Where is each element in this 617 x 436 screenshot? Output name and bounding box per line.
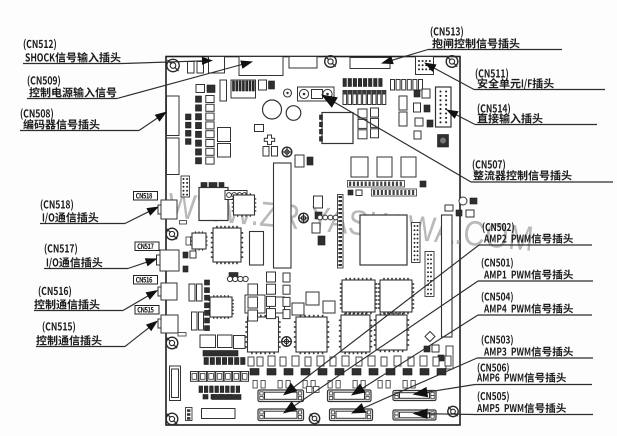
connector CN516 (control comm) [158,283,177,300]
square column c [248,284,258,321]
dark strip 2 [212,395,241,400]
mounting screw top-right [446,56,458,68]
stacked rect column b [371,108,379,138]
CN509 leader line [117,61,253,99]
capacitor C1 [188,62,195,74]
connector CN506 (AMP6 PWM) [393,391,436,401]
vertical pin strip [338,195,344,269]
IC U7 with bumps [320,113,354,144]
connector CN501 (AMP1 PWM) [258,409,304,421]
board label CN517 [135,242,159,251]
CN508 leader line [139,112,167,131]
CN505 label [475,391,593,414]
connector CN503 (AMP3 PWM) [330,409,373,421]
IC N1 [200,335,216,348]
IC U14 QFP [339,313,372,354]
resistor array 2 [399,112,407,126]
screw center-bottom [282,337,292,347]
connector CN504 (AMP4 PWM) [328,390,372,402]
small part [255,125,264,132]
connector CN513 (brake control) [350,58,390,69]
connector CN514 (direct input) [436,87,452,127]
wide flat rect bottom-left [202,409,236,419]
CN505 leader line [413,409,476,420]
DIP switch row [191,372,249,382]
small circle part [284,89,292,97]
screw center [299,213,309,223]
small part right of screw [186,237,191,245]
IC U15 QFP [374,313,409,352]
board label CN518 [134,192,158,201]
capacitor bank left column [196,96,202,164]
IC top flat [289,57,317,69]
IC M1 [245,295,265,313]
capacitor C2 [197,62,204,74]
CN512 leader line [123,57,213,65]
trimmer dark [438,135,449,148]
socket strip with circles [225,191,247,200]
IC M4 [292,303,304,315]
mounting screw top-left [167,59,179,71]
CN514 leader line [446,110,475,125]
connector CN508 upper (encoder) [167,96,180,136]
CN512 label [23,39,123,64]
misc parts mid [295,155,313,167]
small part dark [269,81,275,89]
CN503 label [477,335,593,358]
screw center-top [282,147,292,157]
capacitor bank right column [206,96,214,165]
pin header dual-row top-left [181,176,190,197]
IC U13 QFP [294,315,329,354]
CN507 leader line [321,95,471,183]
dark caps column [205,280,210,331]
board label CN515 [135,306,159,315]
CN517 leader line [128,258,158,268]
stacked rect column a [358,109,367,139]
CN506 leader line [413,385,476,398]
electrolytic capacitor big [263,100,282,119]
small parts column [312,196,325,245]
dark caps row [201,183,224,188]
CN515 leader line [125,321,158,347]
connector bottom-left vertical [170,366,181,401]
IC U6 tall [250,232,264,266]
CN513 leader line [381,50,428,65]
CN501 leader line [283,281,478,414]
dot strip b [425,252,434,297]
plus-shaped part [264,135,274,145]
CN513 label [428,26,562,49]
CN509 label [27,75,117,98]
bottom tiny verticals row [253,381,415,389]
IC U12 QFP [245,315,280,354]
IC M6 QFP small [208,295,234,319]
3-pin part [186,408,193,421]
mounting screw top-middle [325,56,337,68]
mounting screw bottom-right [448,406,458,416]
mounting screw left-1 [166,141,178,153]
hatched strip 2 [372,189,417,196]
resistor array 1 [399,96,407,110]
small part [259,80,267,90]
caps pair above columns [196,85,215,93]
IC U10 QFP [340,278,377,314]
square column a [267,272,276,319]
CN503 leader line [351,358,477,414]
CN518 label [40,199,125,223]
cap row upper [343,79,382,87]
misc small y185 [348,181,426,196]
IC square a [351,157,368,177]
tiny bar below CN518 [180,221,187,225]
square column b [283,273,290,319]
connector CN505 (AMP5 PWM) [393,410,436,420]
small squares right of DIP [307,387,320,393]
barcode label strip [203,351,238,357]
CN504 label [478,292,592,315]
CN502 label [479,222,592,245]
IC N3 [234,336,246,349]
long vertical rect right edge [442,215,453,337]
big IC U8 [199,188,228,221]
IC M3 [306,292,319,305]
circle pins row [318,215,338,220]
big square IC center-right [360,215,407,265]
bottom caps row 1 [204,358,245,365]
pin header comb [231,80,256,98]
IC U2 [218,128,231,142]
rect left b pair [192,312,198,330]
CN518 leader line [125,207,159,224]
bottom caps row mid [248,356,451,366]
caps pair [263,147,278,157]
dot strip a [412,223,421,263]
small parts above right [445,197,477,217]
diamond part [425,332,435,342]
connector CN517 (I/O comm) [157,250,180,271]
IC M2 [270,297,285,313]
CN506 label [475,363,592,385]
CN516 leader line [123,290,158,311]
mounting screw left-3 [166,337,178,349]
IC M5 [323,301,335,313]
PCB board outline [166,57,460,426]
CN507 label [471,159,613,182]
right edge rect low [446,346,453,369]
electrolytic capacitor 2 [286,106,301,121]
board label CN516 [134,276,158,285]
CN517 label [44,243,128,268]
connector CN511 (safety unit I/F) [416,57,434,75]
IC U9 small QFP [190,231,207,250]
connector CN509 (control power input) [239,57,283,76]
misc parts right [414,89,434,139]
CN515 label [36,321,125,346]
CN516 label [34,286,123,311]
caps left edge mid [183,251,196,272]
IC N2 [218,335,233,348]
IC square c [401,157,416,177]
IC U11 QFP [378,278,414,314]
power connector (rectifier ctl) [298,87,335,101]
inductor L1 [220,80,227,101]
cap row taller [343,91,386,105]
mounting screw bottom-left [166,413,178,425]
IC U3 [218,144,231,158]
connector CN512 (SHOCK input) [209,57,225,74]
CN511 label [474,68,605,89]
connector CN518 (I/O comm) [158,200,177,219]
tiny rows bottom-left [199,386,240,399]
mounting screw left-2 [166,228,178,240]
CN511 leader line [424,63,474,90]
CN502 leader line [283,245,479,396]
connector CN515 (control comm) [158,315,178,333]
CN508 label [20,108,139,130]
small parts near diamond [424,345,444,361]
IC U4 [232,193,257,217]
long vertical rect center [274,163,292,268]
hatched strip 1 [348,181,405,188]
mounting screw bottom-middle [309,413,319,423]
caps near left edge [186,114,192,144]
connector CN508 lower [167,138,180,175]
bottom caps row dark [250,369,446,376]
vertical small rect row [391,80,423,91]
IC square b [377,157,392,177]
CN514 label [475,103,597,124]
CN501 label [478,258,593,281]
rect left a [189,284,195,301]
watermark WWW.ZR-YASKAWA.COM [166,186,535,259]
connector CN502 (AMP2 PWM) [258,390,304,402]
IC U5 big QFP [211,226,243,264]
socket circles row 2 [227,273,248,282]
CN504 leader line [351,315,478,396]
tiny bar below CN515 [178,333,186,337]
